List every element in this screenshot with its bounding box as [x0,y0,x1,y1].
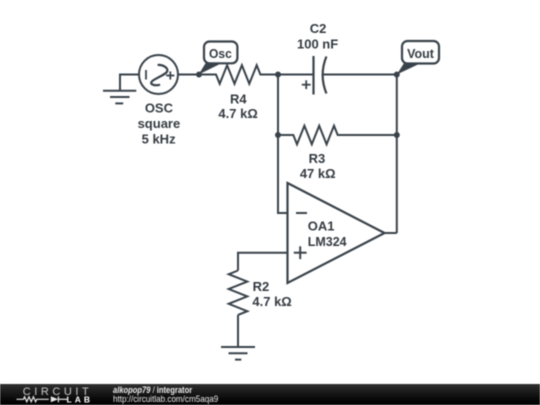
label OA1 LM324 [308,219,348,249]
ground GND1 [103,91,136,104]
label C2 100 nF [297,21,338,51]
capacitor C2 (polarized) [302,56,327,95]
svg-text:Vout: Vout [407,46,434,61]
label OSC square 5 kHz [138,100,181,146]
resistor R4 [199,65,278,84]
node E (R3 right junction) [394,132,400,138]
node Osc (junction dot) [196,72,202,78]
svg-text:R3: R3 [309,151,326,166]
label R4 4.7 kohm [218,92,257,121]
svg-text:R4: R4 [230,92,247,107]
op-amp OA1 [288,183,385,283]
label R3 47 kohm [300,151,336,181]
wire: ground to OSC negative terminal [120,75,139,91]
svg-text:C2: C2 [310,21,327,36]
svg-text:100 nF: 100 nF [297,36,338,51]
wire: non-inverting input left and down to R2 [238,253,288,271]
wire: OSC positive terminal to node Osc [178,74,199,76]
voltage source OSC (square wave symbol) [139,55,178,94]
svg-text:4.7 kΩ: 4.7 kΩ [252,294,291,309]
svg-text:OA1: OA1 [308,219,335,234]
svg-text:47 kΩ: 47 kΩ [300,166,336,181]
CircuitLab logo [0,384,100,405]
node B (R4 / C2 / R3 / op-amp input junction) [275,72,281,78]
wire: C2 right plate to node Vout [323,74,397,76]
wire: R2 to ground [237,315,239,347]
flag Osc [199,42,238,75]
resistor R3 [278,126,397,145]
svg-text:LAB: LAB [67,395,93,405]
wire: node B to C2 left plate [278,74,314,76]
resistor R2 [229,271,248,315]
svg-text:R2: R2 [253,279,270,294]
svg-text:OSC: OSC [145,100,174,115]
footer bar [0,384,540,405]
svg-text:Osc: Osc [209,46,232,61]
wire: node B down to R3 left node [277,75,279,136]
flag Vout [397,41,439,75]
ground GND2 [221,347,255,360]
label R2 4.7 kohm [252,279,291,309]
svg-text:LM324: LM324 [308,234,348,249]
svg-text:5 kHz: 5 kHz [142,131,176,146]
wire: node Vout down to op-amp output [396,75,398,234]
svg-text:square: square [138,116,181,131]
wire: op-amp output to vertical feedback line [385,232,397,234]
footer credit text [113,386,192,395]
wire: node D down and right to inverting input [278,135,288,213]
footer url text [113,395,218,404]
node D (R3 left junction) [275,132,281,138]
node Vout (junction dot) [394,72,400,78]
svg-text:4.7 kΩ: 4.7 kΩ [218,106,257,121]
